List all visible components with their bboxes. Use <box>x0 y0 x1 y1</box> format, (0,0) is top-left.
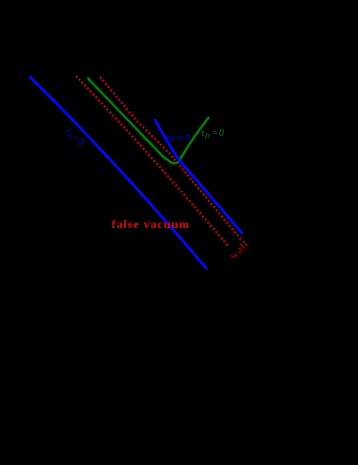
arrowhead on green line G1 <box>87 77 91 81</box>
wire: blue constant-time line A <box>30 77 206 268</box>
wire: red dotted line R2 (wall trajectory) <box>100 77 241 240</box>
wire: green geodesic G1 with hook and G2 branch <box>88 79 209 164</box>
node label on line A (rotated blue label) <box>63 126 87 150</box>
wire: red dotted line R1 (false vacuum boundary left) <box>76 76 229 247</box>
svg-text:τfr=0: τfr=0 <box>201 128 224 140</box>
svg-text:ϖ=0: ϖ=0 <box>167 132 191 144</box>
svg-text:wall: wall <box>228 238 251 261</box>
node label: wall (dark red, rotated) <box>228 238 251 261</box>
svg-text:false vacuum: false vacuum <box>112 217 190 231</box>
wire: blue curve B (bubble wall interior curve) <box>155 120 242 233</box>
